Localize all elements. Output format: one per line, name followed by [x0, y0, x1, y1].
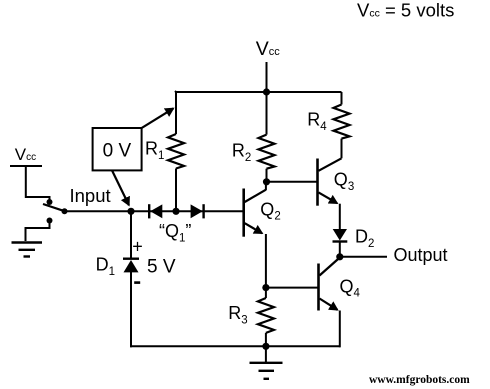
- wire Q3 emitter to D2: [339, 204, 341, 230]
- node switch upper contact: [47, 199, 53, 205]
- wire Vcc left bar: [10, 165, 42, 167]
- resistor R4: [334, 105, 350, 139]
- node Vcc rail junction: [263, 88, 270, 95]
- wire D1 to bottom rail: [130, 272, 132, 347]
- box 0 V: [93, 128, 142, 170]
- node bottom rail junction: [262, 343, 269, 350]
- wire R3 bottom: [265, 333, 267, 346]
- wire Q4 base line: [266, 287, 318, 289]
- resistor R3: [258, 298, 274, 333]
- transistor Q3: [318, 158, 342, 205]
- wire Vcc left drop: [26, 166, 50, 201]
- wire D2 to output node: [339, 242, 341, 257]
- arrow box to input node: [112, 170, 129, 205]
- wire R2 bottom: [266, 169, 268, 182]
- ground (center): [250, 363, 283, 379]
- diode Q1 base-collector (right): [191, 204, 204, 218]
- svg-text:www.mfgrobots.com: www.mfgrobots.com: [369, 374, 470, 386]
- wire input to D1: [130, 211, 132, 258]
- node input D1 junction: [127, 208, 134, 215]
- wire R1 bottom: [175, 169, 177, 212]
- wire R1 top: [175, 91, 176, 134]
- switch arm: [43, 204, 65, 211]
- svg-text:5 V: 5 V: [147, 257, 176, 278]
- diode D2: [333, 229, 348, 242]
- wire bottom rail: [130, 345, 340, 347]
- node R2 Q2 Q3 junction: [263, 178, 270, 185]
- wire R2 top: [266, 92, 268, 135]
- diode D1: [123, 259, 139, 273]
- svg-text:Input: Input: [70, 185, 111, 206]
- svg-text:0 V: 0 V: [103, 141, 132, 162]
- node switch lower contact: [47, 218, 53, 224]
- node output junction: [336, 253, 343, 260]
- wire top rail: [175, 91, 342, 93]
- arrow box to R1: [142, 108, 174, 128]
- wire R4 top: [341, 92, 343, 105]
- resistor R1: [168, 134, 184, 169]
- svg-text:Output: Output: [394, 245, 448, 265]
- ground (left): [12, 243, 43, 257]
- transistor Q2: [244, 189, 266, 237]
- node R1 input junction: [172, 208, 179, 215]
- node switch pole: [62, 208, 68, 214]
- wire ground stub: [265, 346, 267, 362]
- node R3 Q4 junction: [262, 284, 269, 291]
- label -: [134, 281, 140, 284]
- wire Q4 emitter down: [339, 311, 341, 348]
- resistor R2: [259, 135, 275, 169]
- wire Q2 collector up: [265, 182, 267, 190]
- svg-text:+: +: [132, 236, 143, 256]
- wire R3 top: [265, 288, 267, 298]
- wire Vcc stub: [266, 62, 268, 92]
- wire lower contact to ground: [26, 221, 50, 242]
- transistor Q4: [319, 258, 340, 311]
- wire input line: [65, 210, 244, 212]
- wire output line: [340, 256, 387, 258]
- wire R4 bottom: [341, 139, 343, 159]
- wire Q2 emitter down: [265, 234, 267, 288]
- svg-text:“Q1”: “Q1”: [159, 221, 191, 244]
- diode Q1 base-emitter (left): [149, 204, 162, 218]
- wire Q3 base line: [267, 181, 317, 183]
